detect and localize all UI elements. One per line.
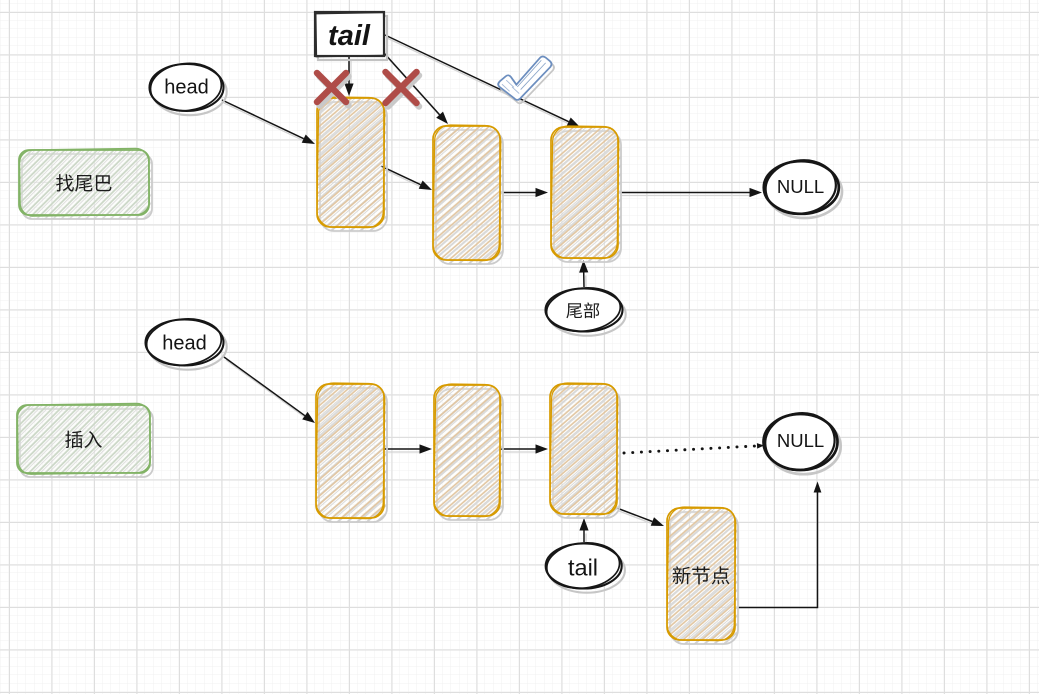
svg-text:head: head <box>164 77 209 99</box>
svg-text:NULL: NULL <box>777 430 824 451</box>
svg-text:tail: tail <box>328 20 371 52</box>
svg-text:NULL: NULL <box>777 176 824 197</box>
svg-text:head: head <box>162 333 207 355</box>
svg-text:tail: tail <box>568 554 598 580</box>
